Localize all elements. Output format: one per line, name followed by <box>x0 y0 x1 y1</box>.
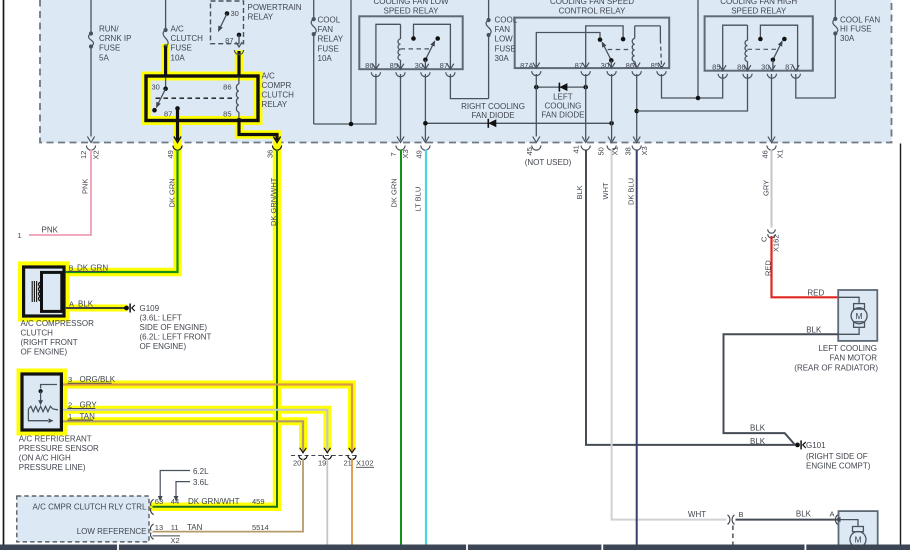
svg-text:G109: G109 <box>140 304 160 313</box>
svg-text:A/C COMPRESSOR: A/C COMPRESSOR <box>21 319 95 328</box>
svg-text:FAN: FAN <box>495 25 511 34</box>
svg-text:X1: X1 <box>776 149 785 158</box>
svg-text:86: 86 <box>626 61 634 70</box>
svg-text:COOLING FAN LOW: COOLING FAN LOW <box>373 0 449 6</box>
svg-text:LT BLU: LT BLU <box>414 187 423 212</box>
svg-text:30: 30 <box>601 61 609 70</box>
svg-text:FUSE: FUSE <box>171 44 192 53</box>
svg-text:85: 85 <box>223 110 231 119</box>
svg-text:GRY: GRY <box>762 180 771 196</box>
svg-text:LOW: LOW <box>495 35 514 44</box>
svg-text:11: 11 <box>171 523 179 532</box>
svg-text:BLK: BLK <box>575 185 584 199</box>
svg-text:86: 86 <box>737 63 745 72</box>
svg-text:6.2L: 6.2L <box>193 467 209 476</box>
svg-text:30A: 30A <box>840 34 855 43</box>
svg-text:LEFT COOLING: LEFT COOLING <box>818 344 877 353</box>
svg-text:COOL: COOL <box>318 16 341 25</box>
svg-text:7: 7 <box>389 152 398 156</box>
svg-text:M: M <box>854 535 861 545</box>
svg-text:LEFT: LEFT <box>553 93 573 102</box>
svg-text:DK GRN/WHT: DK GRN/WHT <box>188 497 240 506</box>
svg-text:FAN: FAN <box>318 25 334 34</box>
svg-text:CLUTCH: CLUTCH <box>171 34 204 43</box>
svg-text:PRESSURE LINE): PRESSURE LINE) <box>19 463 86 472</box>
svg-text:5514: 5514 <box>252 523 269 532</box>
svg-text:(ON A/C HIGH: (ON A/C HIGH <box>19 454 71 463</box>
svg-text:A/C: A/C <box>171 25 185 34</box>
svg-text:X3: X3 <box>401 149 410 158</box>
svg-text:SPEED RELAY: SPEED RELAY <box>384 6 440 15</box>
svg-text:ORG/BLK: ORG/BLK <box>80 375 116 384</box>
svg-text:ENGINE COMPT): ENGINE COMPT) <box>806 462 871 471</box>
svg-text:5A: 5A <box>99 53 109 62</box>
svg-text:BLK: BLK <box>796 510 812 519</box>
svg-text:30A: 30A <box>495 54 510 63</box>
svg-text:A: A <box>69 299 74 308</box>
svg-text:(RIGHT FRONT: (RIGHT FRONT <box>21 338 78 347</box>
svg-text:87: 87 <box>164 110 172 119</box>
svg-text:RED: RED <box>807 289 824 298</box>
svg-text:RUN/: RUN/ <box>99 25 119 34</box>
svg-text:10A: 10A <box>171 53 186 62</box>
svg-text:87: 87 <box>440 61 448 70</box>
svg-text:10A: 10A <box>318 54 333 63</box>
svg-text:COOLING: COOLING <box>544 102 581 111</box>
svg-text:PRESSURE SENSOR: PRESSURE SENSOR <box>19 444 99 453</box>
svg-text:HI FUSE: HI FUSE <box>840 25 872 34</box>
svg-text:FUSE: FUSE <box>99 44 120 53</box>
svg-text:1: 1 <box>18 231 22 240</box>
svg-text:CLUTCH: CLUTCH <box>262 91 295 100</box>
svg-text:85: 85 <box>390 61 398 70</box>
svg-text:RIGHT COOLING: RIGHT COOLING <box>461 102 525 111</box>
svg-text:COMPR: COMPR <box>262 81 292 90</box>
svg-text:POWERTRAIN: POWERTRAIN <box>248 3 302 12</box>
svg-text:49: 49 <box>166 150 175 158</box>
svg-text:BLK: BLK <box>750 424 766 433</box>
svg-text:50: 50 <box>597 147 606 155</box>
svg-text:87: 87 <box>785 63 793 72</box>
svg-text:87: 87 <box>225 36 233 45</box>
svg-text:13: 13 <box>155 523 163 532</box>
svg-text:36: 36 <box>266 150 275 158</box>
svg-text:X162: X162 <box>772 234 781 252</box>
svg-text:2: 2 <box>68 400 72 409</box>
svg-text:M: M <box>856 311 863 321</box>
svg-text:X1: X1 <box>611 146 620 155</box>
svg-text:FAN DIODE: FAN DIODE <box>541 111 584 120</box>
svg-text:PNK: PNK <box>42 226 59 235</box>
svg-text:46: 46 <box>761 150 770 158</box>
svg-text:SIDE OF ENGINE): SIDE OF ENGINE) <box>140 323 208 332</box>
svg-text:19: 19 <box>318 459 326 468</box>
svg-text:G101: G101 <box>806 441 826 450</box>
svg-text:TAN: TAN <box>187 523 203 532</box>
svg-text:A/C REFRIGERANT: A/C REFRIGERANT <box>19 435 92 444</box>
svg-text:(RIGHT SIDE OF: (RIGHT SIDE OF <box>806 452 868 461</box>
svg-text:BLK: BLK <box>806 326 822 335</box>
svg-text:DK BLU: DK BLU <box>627 178 636 205</box>
svg-text:RELAY: RELAY <box>318 35 344 44</box>
svg-text:RELAY: RELAY <box>262 100 288 109</box>
svg-text:44: 44 <box>171 497 179 506</box>
svg-text:3: 3 <box>68 375 72 384</box>
svg-text:(6.2L: LEFT FRONT: (6.2L: LEFT FRONT <box>140 333 212 342</box>
svg-text:COOL FAN: COOL FAN <box>840 15 880 24</box>
svg-text:CONTROL RELAY: CONTROL RELAY <box>559 6 626 15</box>
svg-text:GRY: GRY <box>80 400 98 409</box>
svg-text:B: B <box>69 263 74 272</box>
svg-text:85: 85 <box>712 63 720 72</box>
svg-text:COOLING FAN SPEED: COOLING FAN SPEED <box>550 0 634 6</box>
svg-text:FUSE: FUSE <box>495 44 516 53</box>
svg-text:A/C: A/C <box>262 72 276 81</box>
svg-text:LOW REFERENCE: LOW REFERENCE <box>77 527 147 536</box>
svg-text:86: 86 <box>223 83 231 92</box>
svg-text:30: 30 <box>152 83 160 92</box>
svg-text:RED: RED <box>764 260 773 276</box>
svg-text:30: 30 <box>761 63 769 72</box>
svg-text:CRNK IP: CRNK IP <box>99 34 131 43</box>
svg-text:OF ENGINE): OF ENGINE) <box>21 348 68 357</box>
svg-text:459: 459 <box>252 497 265 506</box>
svg-text:87A: 87A <box>520 61 533 70</box>
svg-text:WHT: WHT <box>688 510 706 519</box>
svg-text:3.6L: 3.6L <box>193 478 209 487</box>
svg-text:WHT: WHT <box>601 182 610 199</box>
svg-text:49: 49 <box>415 150 424 158</box>
svg-text:DK GRN/WHT: DK GRN/WHT <box>269 177 278 226</box>
svg-text:TAN: TAN <box>80 412 96 421</box>
svg-text:X2: X2 <box>92 150 101 159</box>
svg-text:CLUTCH: CLUTCH <box>21 329 54 338</box>
svg-text:SPEED RELAY: SPEED RELAY <box>731 6 787 15</box>
svg-text:X3: X3 <box>640 146 649 155</box>
svg-text:C: C <box>760 236 769 242</box>
svg-text:FUSE: FUSE <box>318 44 339 53</box>
svg-text:RELAY: RELAY <box>248 12 274 21</box>
svg-text:(NOT USED): (NOT USED) <box>525 158 572 167</box>
svg-text:PNK: PNK <box>81 179 90 194</box>
svg-text:86: 86 <box>365 61 373 70</box>
svg-text:21: 21 <box>344 459 352 468</box>
svg-text:COOL: COOL <box>495 16 518 25</box>
svg-text:12: 12 <box>79 151 88 159</box>
svg-text:FAN MOTOR: FAN MOTOR <box>830 354 878 363</box>
svg-text:BLK: BLK <box>750 437 766 446</box>
svg-text:(3.6L: LEFT: (3.6L: LEFT <box>140 313 182 322</box>
svg-text:30: 30 <box>415 61 423 70</box>
svg-text:DK GRN: DK GRN <box>390 178 399 207</box>
svg-text:45: 45 <box>525 147 534 155</box>
svg-text:DK GRN: DK GRN <box>168 178 177 207</box>
svg-text:20: 20 <box>293 459 301 468</box>
svg-text:85: 85 <box>651 61 659 70</box>
svg-text:1: 1 <box>68 412 72 421</box>
svg-text:A: A <box>830 510 835 519</box>
svg-text:COOLING FAN HIGH: COOLING FAN HIGH <box>720 0 797 6</box>
svg-text:DK GRN: DK GRN <box>77 263 108 272</box>
svg-text:OF ENGINE): OF ENGINE) <box>140 342 187 351</box>
svg-text:B: B <box>739 510 744 519</box>
svg-text:41: 41 <box>572 145 581 153</box>
svg-text:87: 87 <box>575 61 583 70</box>
svg-text:(REAR OF RADIATOR): (REAR OF RADIATOR) <box>794 363 878 372</box>
svg-text:63: 63 <box>155 497 163 506</box>
svg-text:BLK: BLK <box>78 299 94 308</box>
svg-text:X2: X2 <box>171 536 180 545</box>
svg-text:38: 38 <box>624 147 633 155</box>
svg-text:X102: X102 <box>356 459 374 468</box>
svg-text:30: 30 <box>231 9 239 18</box>
svg-text:A/C CMPR CLUTCH RLY CTRL: A/C CMPR CLUTCH RLY CTRL <box>33 502 147 511</box>
svg-text:FAN DIODE: FAN DIODE <box>471 111 514 120</box>
